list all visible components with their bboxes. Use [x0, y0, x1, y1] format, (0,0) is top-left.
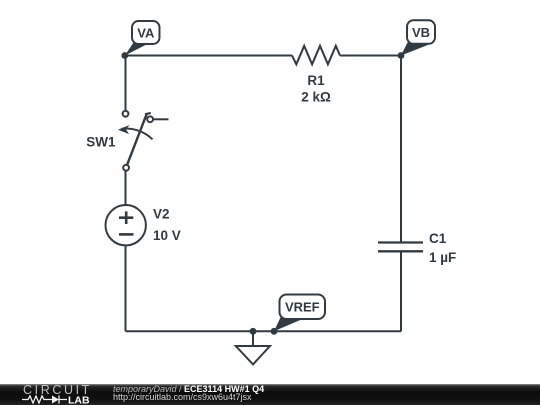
svg-text:VREF: VREF	[285, 300, 320, 315]
svg-text:V2: V2	[153, 207, 170, 222]
ground triangle	[236, 346, 270, 364]
svg-text:10 V: 10 V	[153, 228, 181, 243]
flag VA pointer	[125, 43, 147, 56]
voltage source V2 circle	[106, 205, 146, 245]
svg-text:R1: R1	[307, 73, 325, 88]
svg-text:SW1: SW1	[86, 135, 116, 150]
svg-text:LAB: LAB	[68, 395, 90, 405]
flag VB pointer	[401, 43, 429, 56]
V2 plus sign	[119, 211, 133, 224]
logo diode bar and wire	[59, 396, 67, 404]
switch SW1 top terminal circle	[123, 111, 129, 117]
wire: switch SW1 bottom terminal to V2 top	[125, 171, 127, 205]
switch SW1 lever	[127, 113, 147, 164]
resistor R1 zigzag	[292, 46, 340, 65]
wire: V2 bottom to bottom rail	[125, 245, 127, 331]
footer title line	[113, 385, 264, 394]
footer bar	[0, 384, 540, 405]
capacitor C1 top plate	[378, 241, 423, 243]
flag VREF pointer	[274, 318, 302, 332]
CircuitLab logo word CIRCUIT	[23, 385, 92, 395]
wire bottom rail	[126, 330, 402, 332]
ground junction dot	[250, 328, 257, 335]
svg-text:VB: VB	[412, 25, 430, 40]
switch SW1 arc arrowhead	[118, 125, 130, 134]
flag VB box	[407, 20, 435, 44]
svg-text:2 kΩ: 2 kΩ	[301, 90, 331, 105]
node VB dot	[398, 52, 405, 59]
wire left: VA node down to switch SW1 top terminal	[125, 56, 127, 111]
flag VA box	[132, 21, 160, 44]
wire: capacitor C1 to bottom rail	[400, 252, 402, 332]
switch SW1 rotation arc	[122, 129, 153, 140]
capacitor C1 bottom plate	[378, 250, 423, 252]
footer url line	[113, 393, 252, 402]
wire right: VB node down to capacitor C1	[400, 56, 402, 243]
ground stub wire	[252, 331, 254, 346]
svg-text:C1: C1	[429, 231, 447, 246]
V2 minus sign	[119, 233, 134, 236]
flag VREF box	[280, 295, 326, 320]
wire top left: VA node to resistor R1	[126, 55, 293, 57]
svg-text:VA: VA	[137, 26, 155, 41]
CircuitLab logo schematic line with resistor, diode and LAB	[20, 394, 115, 405]
switch SW1 throw terminal circle	[147, 116, 153, 122]
logo resistor zigzag	[22, 396, 52, 403]
svg-text:1 µF: 1 µF	[429, 250, 456, 265]
switch SW1 throw stub wire	[153, 118, 168, 120]
logo diode triangle	[52, 396, 59, 404]
node VA dot	[121, 52, 128, 59]
wire top right: resistor R1 to VB node	[340, 55, 401, 57]
node VREF dot	[271, 328, 278, 335]
switch SW1 lever top tick	[145, 113, 151, 114]
switch SW1 bottom terminal circle	[123, 165, 129, 171]
